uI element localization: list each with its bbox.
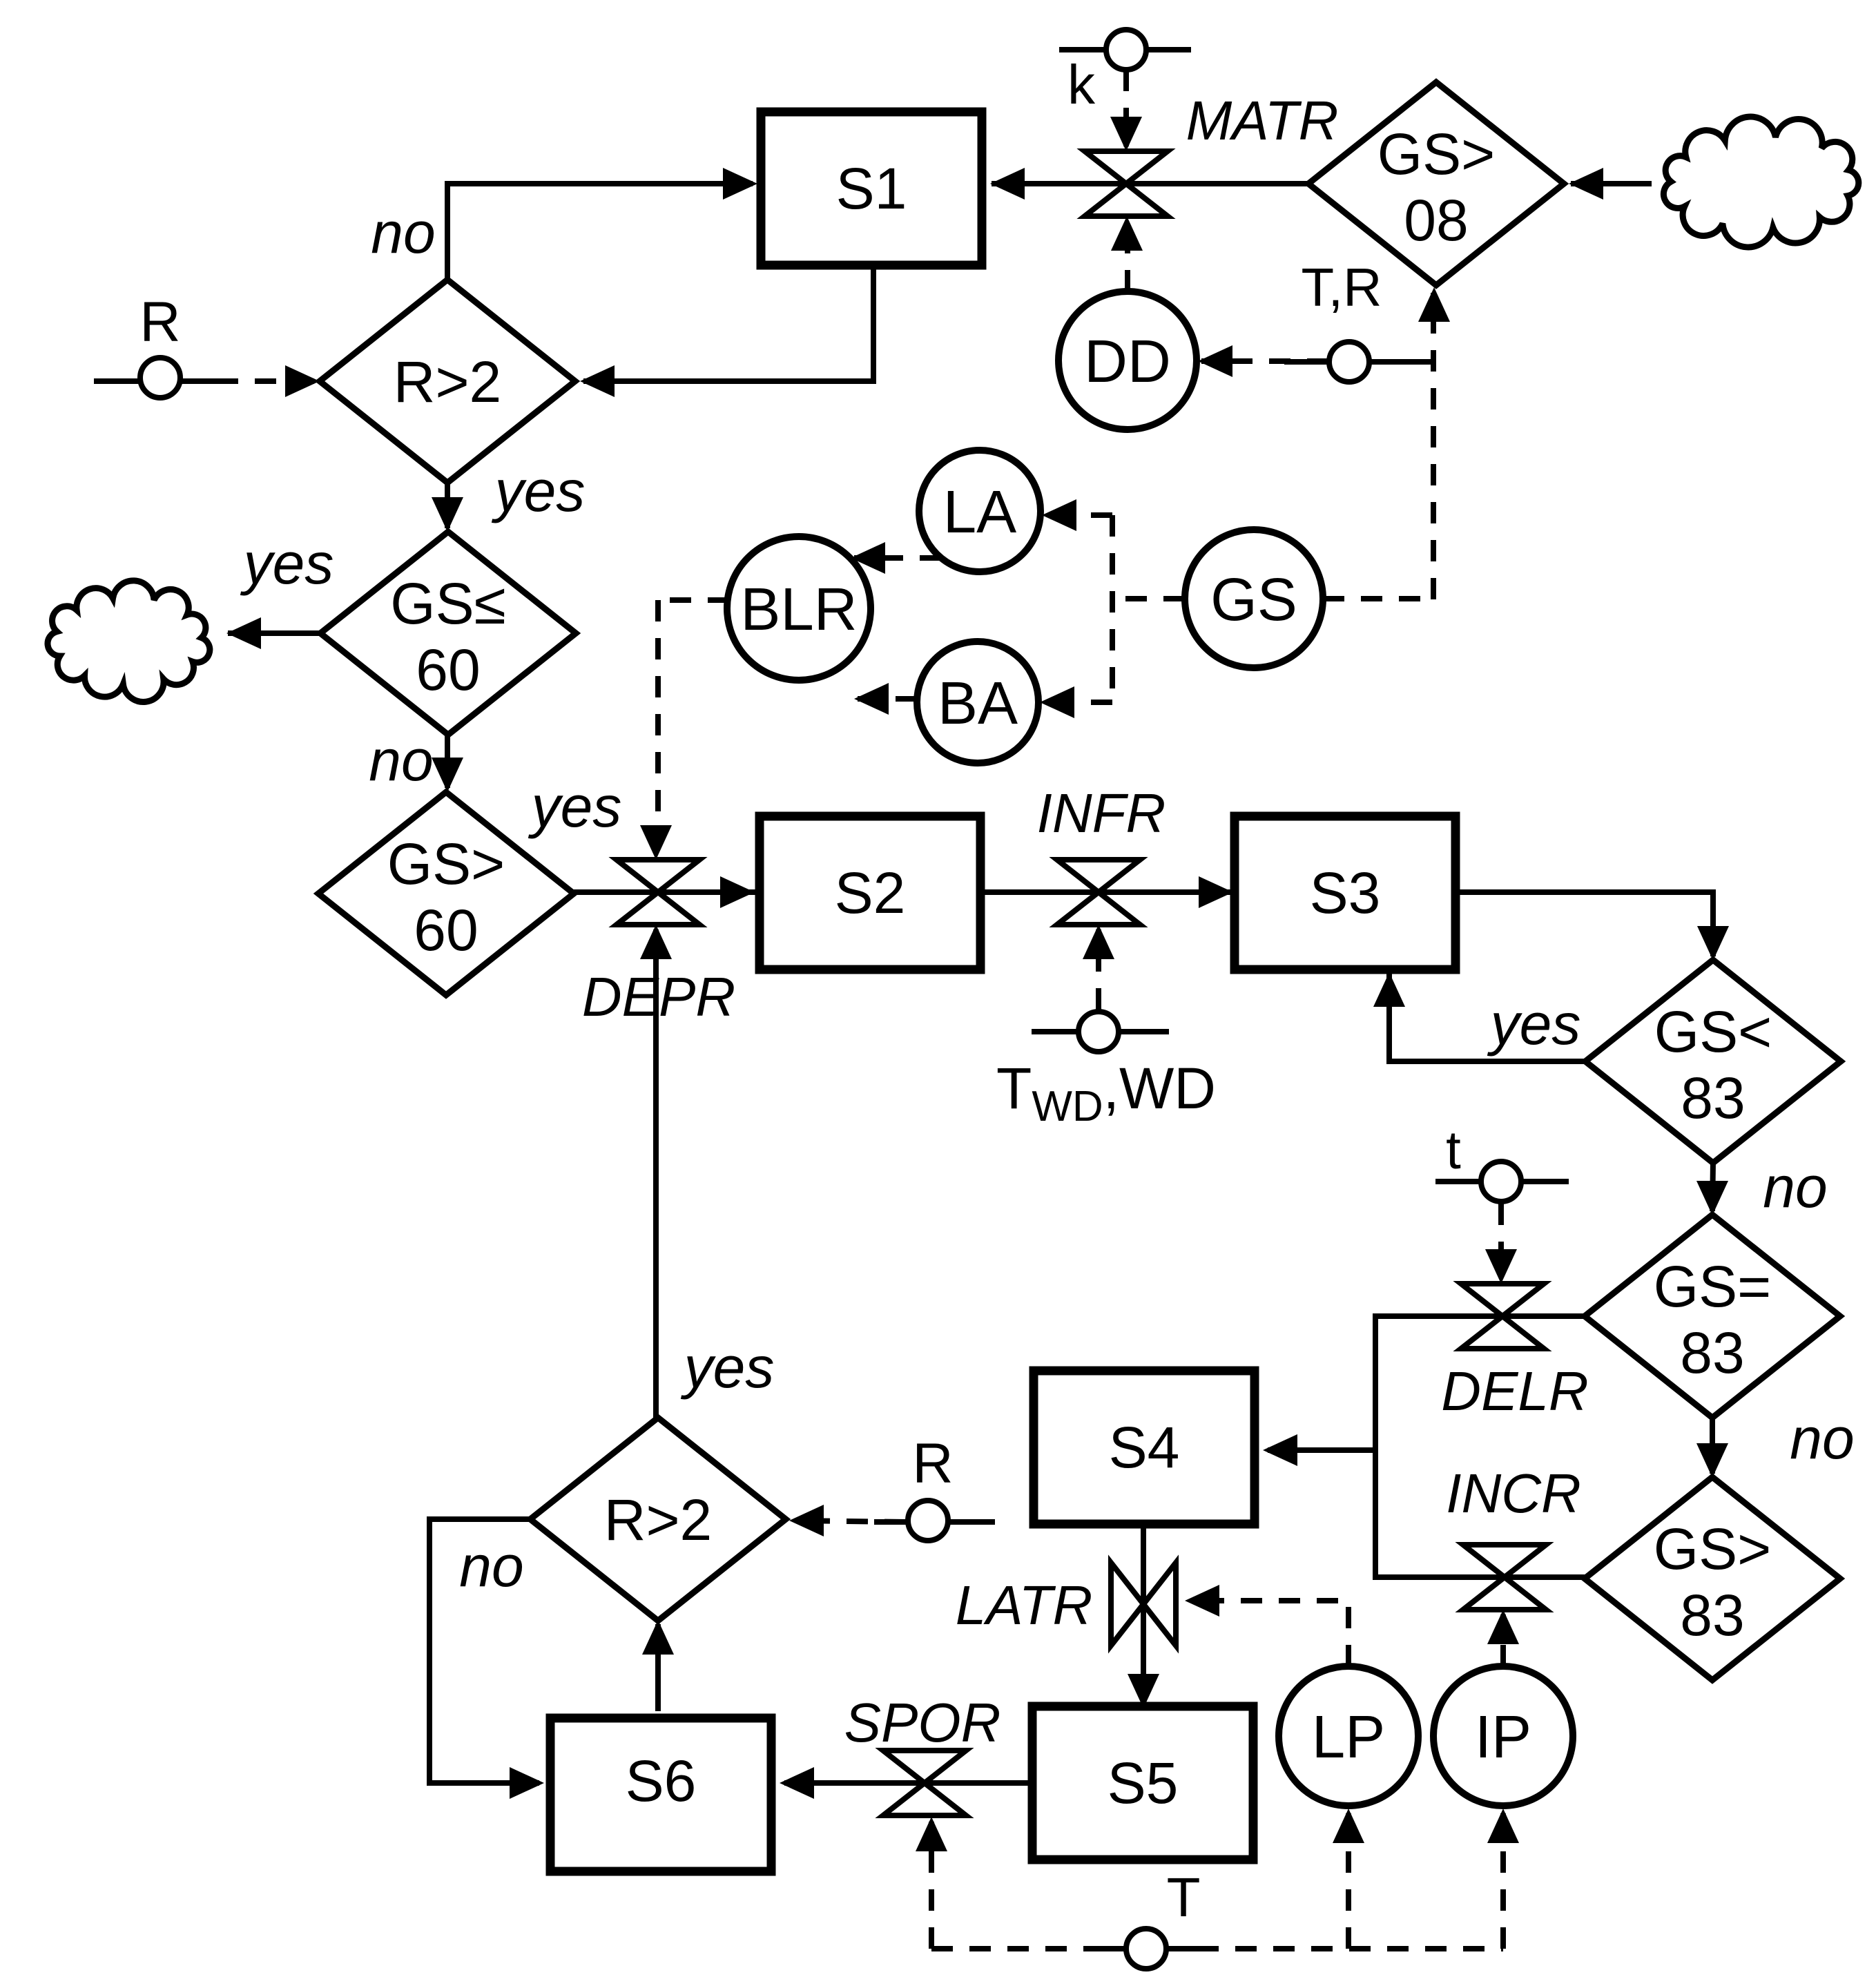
svg-text:GS>: GS> <box>1654 1516 1771 1581</box>
svg-text:no: no <box>1790 1406 1854 1471</box>
svg-text:83: 83 <box>1680 1583 1744 1648</box>
svg-text:GS: GS <box>1210 566 1297 633</box>
svg-text:S5: S5 <box>1108 1751 1179 1815</box>
svg-text:BLR: BLR <box>740 576 857 643</box>
svg-text:yes: yes <box>528 774 622 839</box>
svg-text:no: no <box>459 1534 523 1599</box>
svg-text:yes: yes <box>240 531 334 596</box>
svg-text:IP: IP <box>1475 1704 1531 1771</box>
svg-text:SPOR: SPOR <box>844 1692 1001 1753</box>
svg-text:T: T <box>1167 1867 1201 1928</box>
svg-text:yes: yes <box>681 1335 775 1400</box>
svg-text:LATR: LATR <box>956 1574 1093 1636</box>
svg-text:GS≤: GS≤ <box>390 571 505 636</box>
svg-text:no: no <box>369 728 433 793</box>
svg-text:GS>: GS> <box>1377 122 1495 186</box>
svg-text:R: R <box>139 291 180 354</box>
svg-text:R>2: R>2 <box>394 349 501 414</box>
svg-text:R>2: R>2 <box>604 1487 712 1552</box>
svg-text:GS=: GS= <box>1654 1254 1771 1319</box>
svg-text:INCR: INCR <box>1446 1463 1581 1524</box>
svg-text:yes: yes <box>492 459 586 523</box>
svg-text:GS<: GS< <box>1654 999 1772 1064</box>
svg-text:83: 83 <box>1680 1320 1744 1385</box>
svg-text:DD: DD <box>1084 328 1171 395</box>
svg-text:no: no <box>1763 1155 1827 1219</box>
svg-text:08: 08 <box>1404 188 1468 253</box>
svg-text:S1: S1 <box>836 156 907 221</box>
svg-text:GS>: GS> <box>387 831 505 896</box>
svg-text:S4: S4 <box>1109 1415 1180 1480</box>
svg-text:S2: S2 <box>835 860 906 925</box>
svg-text:DELR: DELR <box>1441 1360 1588 1422</box>
svg-text:R: R <box>912 1432 953 1495</box>
svg-text:LA: LA <box>943 479 1016 546</box>
svg-text:83: 83 <box>1681 1066 1745 1130</box>
svg-text:BA: BA <box>938 670 1018 737</box>
svg-text:t: t <box>1446 1119 1461 1180</box>
svg-text:S3: S3 <box>1310 860 1381 925</box>
svg-text:60: 60 <box>414 898 478 963</box>
svg-text:no: no <box>371 200 435 265</box>
svg-text:yes: yes <box>1487 992 1581 1057</box>
svg-text:T,R: T,R <box>1302 257 1382 318</box>
svg-text:TWD,WD: TWD,WD <box>996 1056 1216 1130</box>
svg-text:k: k <box>1067 54 1096 115</box>
svg-text:MATR: MATR <box>1186 90 1339 151</box>
svg-text:S6: S6 <box>626 1748 697 1813</box>
svg-text:60: 60 <box>416 637 480 702</box>
svg-text:DEPR: DEPR <box>582 966 735 1028</box>
svg-text:LP: LP <box>1312 1704 1385 1771</box>
svg-text:INFR: INFR <box>1037 782 1166 844</box>
